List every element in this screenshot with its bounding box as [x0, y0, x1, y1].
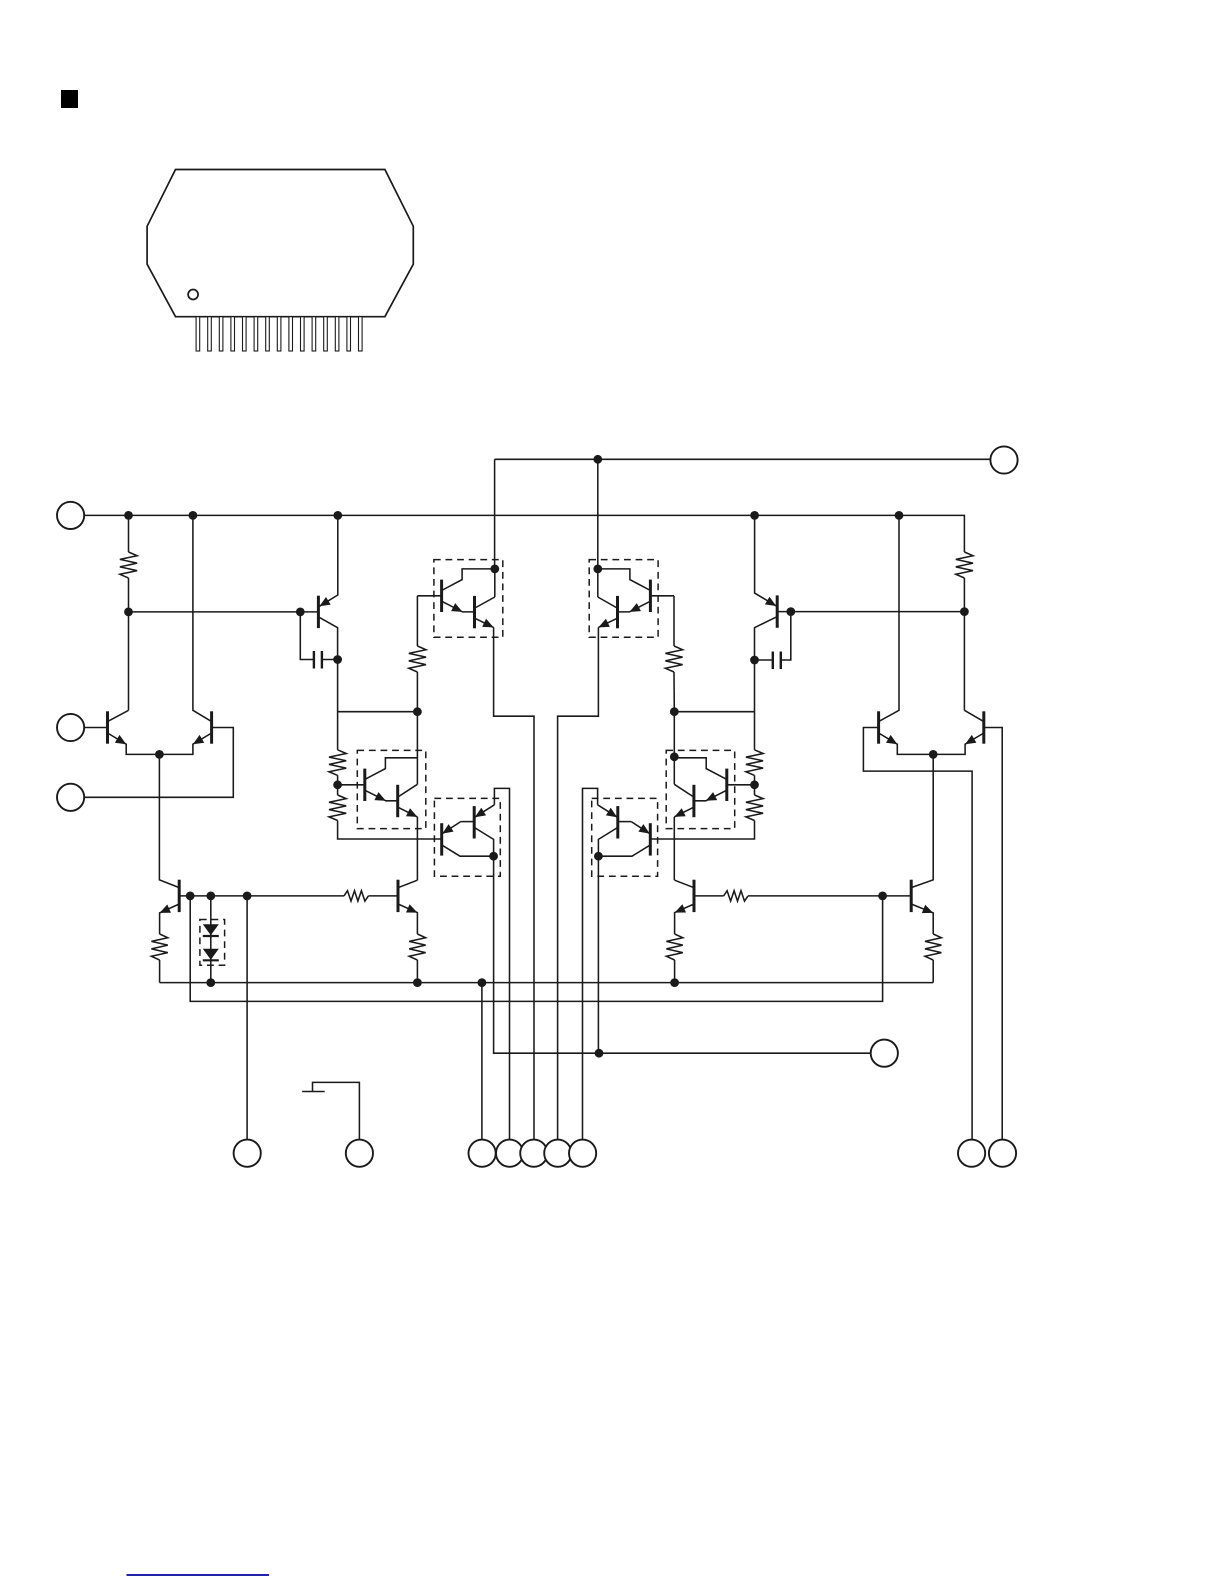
U6 Q16a base link — [618, 821, 632, 823]
U3 Q13b emitter — [398, 807, 417, 817]
capacitor C1 plates — [313, 651, 315, 669]
U2 collector rail drop — [597, 569, 599, 597]
U4 Q14b emitter — [674, 807, 693, 817]
transistor Q1 base bar — [106, 711, 109, 743]
transistor Q6 emitter from rail — [755, 515, 777, 606]
wire Q10 base to R8 — [694, 895, 724, 897]
darlington U5 dashed box — [434, 798, 500, 876]
terminal VCC1 (top left) — [57, 502, 84, 529]
U3 base wire — [338, 784, 365, 786]
node U4 rail dot — [670, 752, 679, 761]
U3 Q13a emitter arrow (NPN) — [374, 792, 385, 801]
wire Q8 base line to R8 — [748, 895, 911, 897]
transistor Q3 emitter — [879, 733, 934, 754]
resistor R1 lead to node — [128, 578, 130, 612]
resistor R7 (Q9 base) — [344, 891, 368, 901]
U1 collector rail drop — [494, 569, 496, 597]
wire +B drop to U2 rail — [597, 459, 599, 569]
wire node down to U3 rail — [416, 712, 418, 785]
wire +B rail left drop to Q-darlington U1 — [494, 459, 496, 569]
package pins (15 leads) — [196, 317, 362, 351]
U4 base wire — [727, 784, 755, 786]
wire Q5 collector node down — [337, 660, 339, 750]
wire U2 emitter to pin c4 — [558, 627, 599, 1139]
wire second rail (base-line tie) — [190, 896, 882, 1002]
capacitor C2 plates — [772, 652, 774, 670]
wire pin b2 bracket — [313, 1082, 360, 1139]
node Q6 collector / C2 dot — [750, 656, 759, 665]
resistor R11 — [329, 750, 346, 776]
package pin 1 indicator circle — [188, 290, 198, 300]
terminal IN2 (left feedback) — [57, 784, 84, 811]
wire Q4 base to input pin — [984, 728, 1002, 1140]
wire R6 to bottom rail — [932, 960, 934, 983]
transistor Q2 collector — [193, 515, 212, 721]
wire U5 emitter to pin c2 — [494, 788, 509, 1139]
node rail dot diodes — [206, 978, 215, 987]
transistor Q1 emitter arrow (NPN) — [115, 735, 126, 744]
darlington U2 dashed box — [589, 560, 658, 638]
resistor R5 (Q7 emitter) — [151, 934, 167, 960]
node base-line dot (rail2 right) — [878, 892, 887, 901]
transistor Q5 emitter from rail — [319, 515, 337, 606]
U1 Q11a emitter arrow (NPN) — [451, 603, 462, 612]
U6 transistor Q16a base bar — [616, 806, 619, 838]
U6 Q16a collector — [598, 828, 617, 857]
node base-line dot (pin wire) — [243, 892, 252, 901]
transistor Q1 collector — [108, 710, 129, 721]
capacitor C1 wire from base node — [300, 612, 314, 660]
U6 transistor Q16b base bar — [649, 823, 652, 855]
U2 transistor Q12b base bar — [616, 596, 619, 628]
wire Q2 base loop to IN2 — [84, 728, 233, 798]
transistor Q2 base bar — [210, 711, 213, 743]
resistor R13 — [746, 750, 763, 776]
node rail dot pin c1 — [478, 978, 487, 987]
U3 Q13b emitter arrow (NPN) — [406, 808, 417, 817]
wire pin b1 (bias adj) — [246, 896, 248, 1140]
terminal b1 — [234, 1140, 261, 1167]
node Q6 base / C2 dot — [786, 607, 795, 616]
wire +B rail (y=459) — [495, 458, 991, 460]
U1 Q11b emitter — [475, 618, 494, 627]
node base-line dot (diodes) — [206, 892, 215, 901]
U2 Q12b emitter — [598, 618, 617, 627]
resistor R2 — [956, 552, 973, 578]
U1 Q11a emitter — [442, 601, 475, 612]
wire R1 node to Q1 collector — [128, 612, 130, 710]
U5 transistor Q15b base bar — [440, 823, 443, 855]
wire U4 emitter to Q10 collector — [673, 817, 675, 880]
U4 Q14b emitter arrow (NPN) — [674, 808, 685, 817]
node rail dot R9 — [413, 978, 422, 987]
U4 transistor Q14b base bar — [692, 785, 695, 817]
wire U1 emitter to pin c3 — [494, 627, 534, 1139]
transistor Q4 emitter — [933, 733, 984, 754]
wire bottom rail (VEE) — [160, 982, 934, 984]
node R13/R14 dot (U4 base) — [750, 780, 759, 789]
diode D2 — [203, 949, 219, 960]
wire R7 to Q9 base — [368, 895, 398, 897]
transistor Q7 emitter arrow (NPN) — [160, 905, 171, 913]
terminal r2 (right input) — [989, 1140, 1016, 1167]
node base-line dot (rail2 left) — [186, 892, 195, 901]
terminal bias pin — [871, 1040, 898, 1067]
wire U2 base drop — [673, 596, 675, 646]
wire R4 to node — [673, 672, 675, 712]
wire R9 to bottom rail — [416, 960, 418, 983]
node R3 bottom dot — [413, 707, 422, 716]
transistor Q9 base bar — [397, 880, 400, 912]
resistor R8 (Q10 base) — [724, 891, 748, 901]
U5 Q15a collector — [475, 828, 494, 857]
node U6 collector dot — [594, 852, 603, 861]
node rail dot R1 top — [124, 511, 133, 520]
node U1 collector dot — [490, 565, 499, 574]
transistor Q9 emitter — [398, 904, 417, 934]
wire R13 to node — [754, 775, 756, 784]
wire R14 lead — [754, 785, 756, 795]
terminal c4 — [544, 1140, 571, 1167]
U2 transistor Q12a base bar — [649, 580, 652, 612]
U3 Q13a collector — [365, 758, 418, 780]
U5 Q15b collector — [442, 845, 494, 856]
wire IN1 to Q1 base — [84, 727, 108, 729]
U5 Q15a emitter diag — [475, 805, 495, 817]
transistor Q4 emitter arrow (NPN) — [965, 735, 976, 744]
resistor R10 (Q10 emitter) — [666, 934, 682, 960]
transistor Q3 emitter arrow (NPN) — [886, 735, 897, 744]
wire Q7 base line to R7 — [179, 895, 344, 897]
transistor Q10 base bar — [693, 880, 696, 912]
wire R5 to bottom rail — [159, 960, 161, 983]
node Q5 base / C1 dot — [296, 608, 305, 617]
U1 transistor Q11b base bar — [473, 596, 476, 628]
wire U1 base drop — [416, 596, 418, 646]
darlington U6 dashed box — [592, 798, 658, 876]
wire R14 to U6 base — [650, 821, 754, 840]
U2 Q12b emitter arrow (NPN) — [598, 619, 609, 628]
wire R11 to node — [337, 775, 339, 784]
node diff-pair tail dot (right) — [929, 750, 938, 759]
transistor Q10 collector — [675, 880, 694, 888]
wire R12 to U5 base — [338, 821, 442, 840]
U1 Q11b emitter arrow (NPN) — [482, 619, 493, 628]
wire U6 emitter to pin c5 — [583, 788, 598, 1139]
U4 transistor Q14a base bar — [725, 769, 728, 801]
resistor R1 — [120, 552, 137, 578]
transistor Q5 base bar — [317, 596, 320, 628]
U1 Q11b collector — [475, 597, 495, 608]
section marker (black square) — [61, 90, 78, 108]
U6 Q16b emitter arrow (PNP) — [638, 824, 649, 834]
transistor Q9 emitter arrow (NPN) — [406, 904, 417, 912]
U2 Q12a collector — [598, 569, 651, 591]
wire pin c1 (VEE) — [481, 983, 483, 1140]
wire U5 collector to bias line — [494, 856, 871, 1053]
wire R3 to node — [416, 672, 418, 712]
transistor Q1 emitter — [108, 733, 160, 754]
node rail dot Q6 emitter — [750, 511, 759, 520]
U5 Q15a emitter arrow (PNP) — [475, 808, 486, 817]
U2 Q12b collector — [598, 597, 617, 608]
transistor Q5 collector — [319, 617, 337, 659]
node rail dot R10 — [670, 978, 679, 987]
U2 input base wire — [650, 595, 674, 597]
U4 Q14b collector — [674, 784, 693, 797]
terminal +B (top right) — [990, 446, 1017, 473]
U3 transistor Q13a base bar — [363, 769, 366, 801]
transistor Q8 base bar — [910, 880, 913, 912]
U5 Q15b emitter diag — [442, 822, 460, 834]
U6 Q16b collector — [598, 845, 650, 856]
dashed box around D1 D2 — [200, 920, 225, 966]
node R4 bottom dot — [670, 707, 679, 716]
U5 Q15b emitter arrow (PNP) — [442, 824, 453, 834]
U4 Q14a collector — [674, 758, 727, 780]
U6 Q16b emitter diag — [631, 822, 649, 834]
transistor Q7 emitter — [160, 904, 180, 934]
U5 Q15a base link — [461, 821, 475, 823]
IC package outline (SIP hybrid) — [147, 170, 413, 317]
node R2 bottom dot — [960, 607, 969, 616]
U1 Q11a collector — [442, 569, 495, 591]
terminal c3 — [520, 1140, 547, 1167]
node R11/R12 dot (U3 base) — [333, 780, 342, 789]
transistor Q4 base bar — [982, 711, 985, 743]
wire R1 node to Q5 base — [129, 611, 319, 613]
wire VCC1 rail (y=515) — [84, 515, 964, 552]
resistor R1 lead from rail — [128, 515, 130, 552]
node Q5 collector / C1 dot — [333, 655, 342, 664]
node +B/U2 junction dot — [593, 455, 602, 464]
transistor Q6 collector — [755, 617, 777, 660]
transistor Q3 collector — [879, 515, 899, 721]
wire diode branch — [210, 896, 212, 983]
wire VAS left collector line to node — [338, 711, 418, 713]
wire Q3 base to feedback pin — [863, 728, 972, 1140]
resistor R2 lead to node — [963, 578, 965, 612]
transistor Q8 emitter arrow (NPN) — [922, 905, 933, 913]
diode D1 — [203, 924, 219, 935]
wire node to VAS right collector line — [674, 711, 754, 713]
resistor R3 — [409, 646, 426, 672]
footer blue underline — [127, 1574, 270, 1576]
resistor R6 (Q8 emitter) — [925, 934, 941, 960]
node rail dot Q3 collector — [895, 511, 904, 520]
wire U3 emitter to Q9 collector — [416, 817, 418, 880]
darlington U1 dashed box — [434, 560, 503, 638]
resistor R4 — [665, 646, 682, 672]
capacitor C2 wire from collector node — [755, 659, 773, 661]
U4 Q14a emitter — [694, 790, 727, 801]
wire tail to Q8 collector — [911, 754, 933, 887]
transistor Q3 base bar — [877, 711, 880, 743]
terminal c5 — [569, 1140, 596, 1167]
U1 transistor Q11a base bar — [440, 580, 443, 612]
node R1 bottom dot — [124, 608, 133, 617]
wire Q6 collector node down — [754, 660, 756, 750]
wire R2 node to Q4 collector — [963, 612, 965, 711]
U1 input base wire — [417, 595, 441, 597]
transistor Q10 emitter — [675, 904, 694, 934]
node rail dot Q2 collector — [189, 511, 198, 520]
transistor Q5 emitter arrow (PNP) — [319, 597, 330, 606]
terminal c2 — [496, 1140, 523, 1167]
wire pin b2 stub — [302, 1091, 325, 1093]
darlington U4 dashed box — [666, 750, 735, 828]
terminal IN1 (left) — [57, 714, 84, 741]
U6 Q16a emitter arrow (PNP) — [606, 808, 617, 817]
transistor Q2 emitter — [159, 733, 211, 754]
darlington U3 dashed box — [357, 750, 426, 828]
U5 transistor Q15a base bar — [473, 806, 476, 838]
resistor R14 — [746, 795, 763, 821]
resistor R9 (Q9 emitter) — [409, 934, 425, 960]
node diff-pair tail dot (left) — [155, 750, 164, 759]
wire node down to U4 rail — [673, 712, 675, 785]
U2 Q12a emitter — [618, 601, 651, 612]
U6 Q16a emitter diag — [598, 805, 618, 817]
wire tail to Q7 collector — [159, 754, 179, 887]
terminal r1 (right feedback) — [958, 1140, 985, 1167]
resistor R12 — [329, 795, 346, 821]
node U5 collector dot — [489, 852, 498, 861]
transistor Q6 base bar — [776, 595, 779, 627]
terminal c1 — [469, 1140, 496, 1167]
U3 Q13b collector — [398, 784, 417, 797]
U2 Q12a emitter arrow (NPN) — [630, 603, 641, 612]
terminal b2 — [346, 1140, 373, 1167]
U3 transistor Q13b base bar — [396, 785, 399, 817]
wire U6 collector to bias line — [597, 856, 599, 1053]
U3 Q13a emitter — [365, 790, 398, 801]
node bias line dot — [595, 1049, 604, 1058]
wire R2 node to Q6 base — [777, 611, 964, 613]
transistor Q7 base bar — [178, 880, 181, 912]
node rail dot Q5 emitter — [333, 511, 342, 520]
node U2 collector dot — [593, 565, 602, 574]
transistor Q10 emitter arrow (NPN) — [675, 904, 686, 912]
transistor Q6 emitter arrow (PNP) — [765, 597, 776, 606]
transistor Q8 emitter — [911, 904, 933, 934]
wire R10 to bottom rail — [674, 960, 676, 983]
capacitor C2 wire to base node — [781, 612, 791, 660]
transistor Q2 emitter arrow (NPN) — [193, 735, 204, 744]
wire R12 lead — [337, 785, 339, 795]
transistor Q9 collector — [398, 880, 417, 888]
transistor Q4 collector — [964, 710, 983, 721]
capacitor C1 wire to collector node — [322, 659, 338, 661]
U4 Q14a emitter arrow (NPN) — [706, 792, 717, 801]
